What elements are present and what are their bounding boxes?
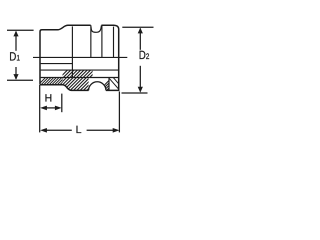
- dimension D2: lower arrowhead: [138, 87, 143, 93]
- section hatching: hex-socket wall band (lower left): [38, 77, 73, 85]
- dimension D2: extension and arrow lines: [122, 27, 154, 93]
- dimension D1: lower arrowhead: [13, 74, 18, 80]
- dimension L: extension and arrow lines: [40, 85, 120, 132]
- socket body outline (half-section silhouette): [40, 25, 119, 90]
- dimension H: extension and arrow lines: [45, 94, 62, 113]
- edge: retaining-ring groove right wall: [101, 25, 103, 57]
- dimension D2: upper arrowhead: [138, 28, 143, 34]
- dimension D1: upper arrowhead: [13, 31, 18, 37]
- dimension H: left arrowhead: [40, 106, 47, 111]
- pin hole shown in section (semicircular void at lower wall): [89, 82, 106, 91]
- dimension L: right arrowhead: [113, 128, 120, 133]
- dimension H: right arrowhead: [55, 106, 62, 111]
- retaining-ring groove profile notch in top silhouette: [91, 25, 101, 32]
- svg-text:L: L: [76, 124, 82, 136]
- bore line: drive square hole wall surface: [41, 77, 119, 79]
- edge: retaining-ring groove left wall: [90, 25, 92, 57]
- back-hatch of drive-square corner panel: [109, 78, 118, 89]
- centerline (axis of socket): [33, 56, 127, 58]
- bore line: hex hole across-flats surface: [41, 63, 73, 65]
- svg-text:H: H: [45, 93, 53, 105]
- edge: cone/cylinder boundary and hex-hole bottom: [71, 26, 73, 77]
- section hatching: wedge between pin hole and drive-square wall: [98, 78, 132, 92]
- edge: drive square hole inner end: [108, 78, 110, 91]
- edge: rear rim chamfer boundary: [113, 27, 115, 58]
- dimension D1: extension and arrow lines: [7, 30, 34, 80]
- section hatching: shoulder/step region of socket wall: [46, 69, 115, 92]
- dimension L: left arrowhead: [40, 128, 47, 133]
- bore line: hex hole corner / drive hole surface: [41, 69, 119, 71]
